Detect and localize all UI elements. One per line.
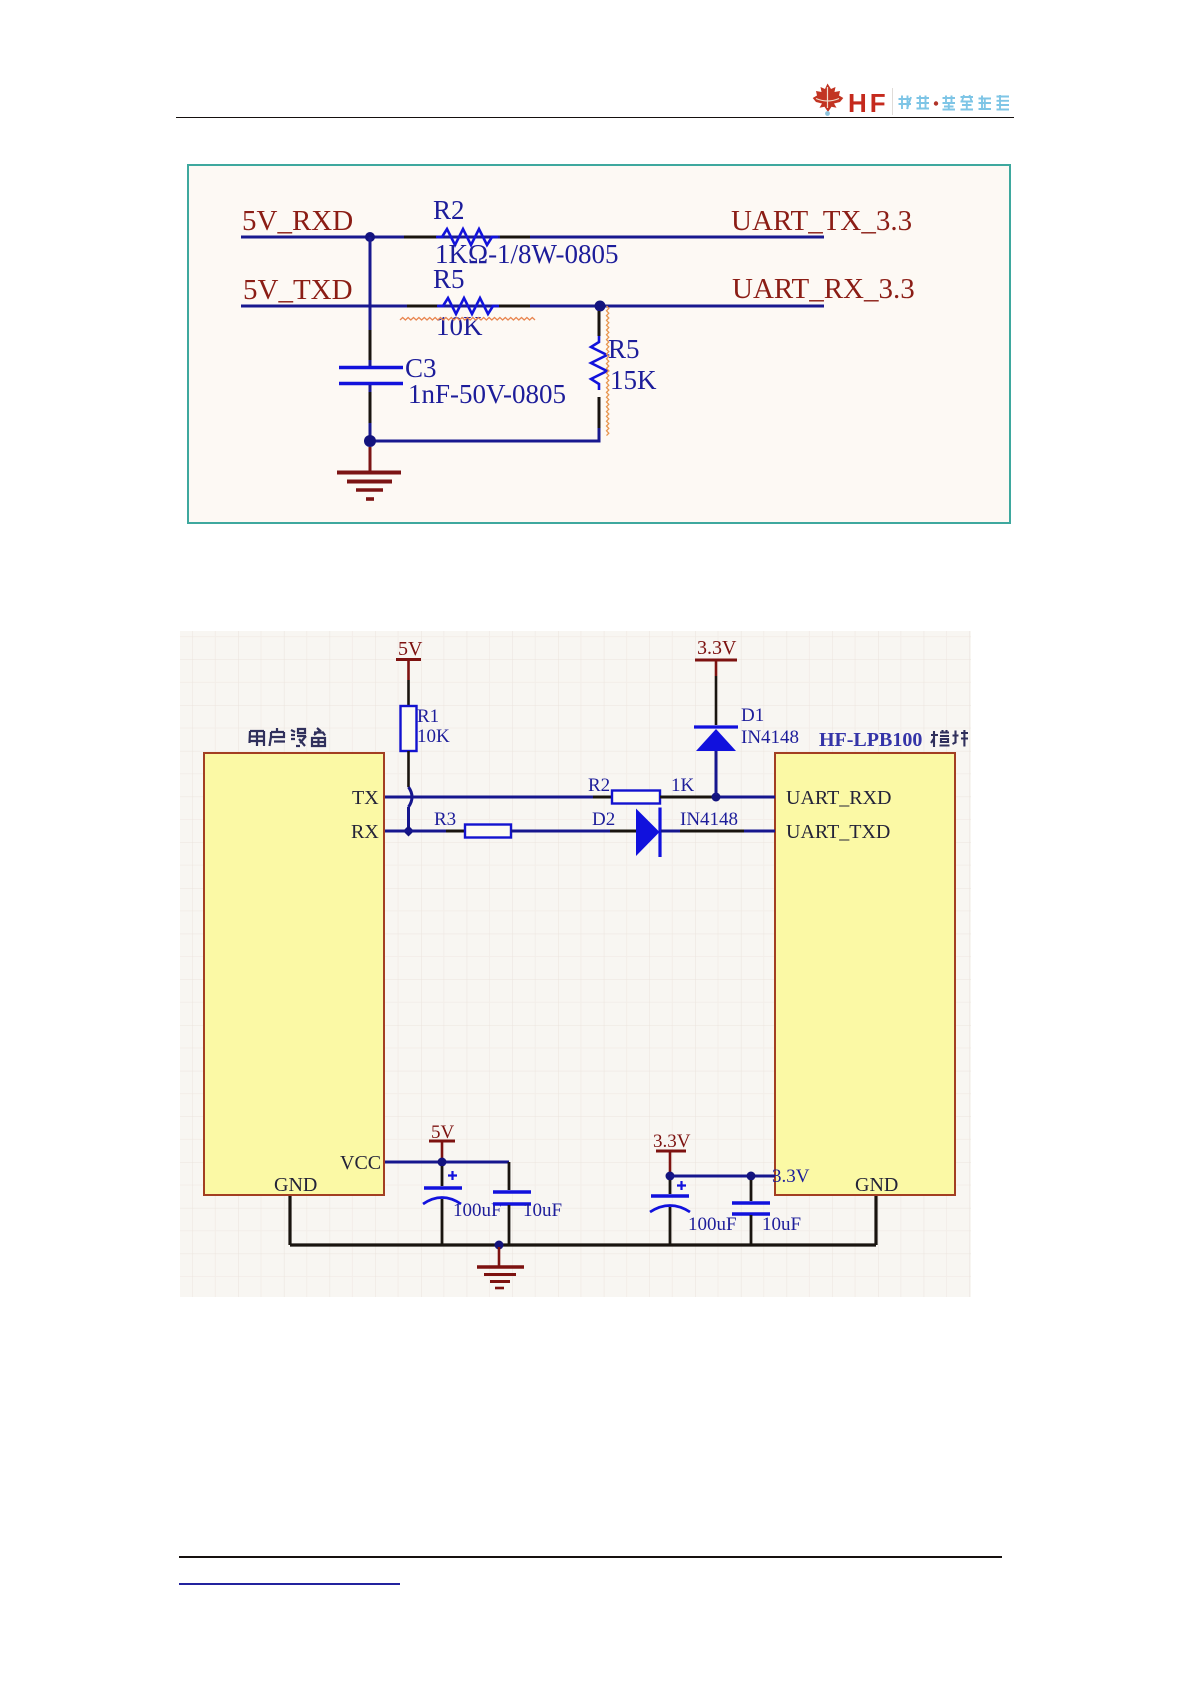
node junction VCC/5V [438,1158,447,1167]
svg-text:5V_TXD: 5V_TXD [243,274,353,306]
wire 5V_TXD net (row 2) [241,305,824,308]
svg-text:UART_RX_3.3: UART_RX_3.3 [732,273,915,305]
wire R2 to D1 junction (dark) [660,796,714,799]
ground symbol [337,447,401,499]
wire GND stem left [288,1196,291,1245]
wire R1 to TX crossing [407,751,410,787]
highlight squiggle along 15K [607,306,609,436]
svg-text:IN4148: IN4148 [680,809,738,830]
resistor R5 zigzag (10K) [437,298,499,314]
svg-text:R5: R5 [608,334,640,364]
svg-text:1nF-50V-0805: 1nF-50V-0805 [408,379,566,409]
wire RX dark segment [446,830,465,833]
capacitor C3 plates [339,368,403,384]
svg-text:UART_TXD: UART_TXD [786,821,890,843]
capacitor 10uF (right) lower stem [750,1215,753,1245]
svg-text:5V: 5V [398,638,423,660]
svg-text:3.3V: 3.3V [697,637,737,659]
wire dark segment before D2 [610,830,637,833]
wire dark segment vertical [369,330,372,360]
highlight squiggle under 10K [400,318,535,321]
node junction row2 [595,301,606,312]
capacitor 100uF top plate [424,1186,462,1189]
node junction 3.3V [666,1172,675,1181]
wire dark segment below C3 [369,392,372,423]
schematic background grid [180,631,971,1297]
capacitor C 100uF (left) stem [441,1166,444,1186]
wire R3 to D2 [511,830,610,833]
svg-text:UART_TX_3.3: UART_TX_3.3 [731,205,912,237]
svg-text:GND: GND [855,1174,898,1196]
wire 3.3V to D1 [715,676,718,725]
svg-text:1K: 1K [671,775,695,796]
node junction bottom [364,435,376,447]
wire dark segment near pin [680,830,744,833]
svg-text:HF-LPB100: HF-LPB100 [819,729,922,751]
wire into pin [744,830,775,833]
svg-text:R2: R2 [588,775,610,796]
wire dark segments row 2 [407,305,530,308]
wire D1 anode to junction [715,751,718,795]
capacitor 100uF (right) plus sign [677,1181,686,1190]
sheet block 用户设备 (user device) [204,753,384,1195]
svg-text:D2: D2 [592,809,615,830]
diode D1 cathode bar [694,725,738,728]
svg-text:R5: R5 [433,264,465,294]
node junction on RX [403,826,414,837]
resistor R1 [401,706,417,751]
svg-text:R3: R3 [434,809,456,830]
resistor R2 zigzag [436,229,498,245]
svg-text:VCC: VCC [340,1152,381,1174]
svg-text:IN4148: IN4148 [741,727,799,748]
svg-text:TX: TX [352,787,379,809]
resistor R5 15K vertical: top dark lead [598,311,601,336]
resistor R3 [465,825,511,838]
node junction on row1 [365,232,375,242]
schematic frame [188,165,1010,523]
resistor R5 15K zigzag [591,336,607,390]
footer link line [179,1583,400,1585]
capacitor 10uF (left) plates [493,1192,531,1204]
logo maple leaf [806,80,852,120]
wire hop over TX [409,787,413,807]
svg-text:RX: RX [351,821,379,843]
svg-text:3.3V: 3.3V [772,1166,810,1187]
capacitor 10uF lower stem [508,1205,511,1245]
footer rule [179,1556,1002,1558]
svg-text:D1: D1 [741,705,764,726]
capacitor 100uF curved plate [423,1198,461,1205]
header rule [176,117,1014,119]
wire TX net [385,796,593,799]
svg-text:15K: 15K [610,365,657,395]
label 模块 [931,730,968,747]
svg-text:10uF: 10uF [523,1200,562,1221]
wire vertical from row1 to C3 [369,237,372,366]
wire D2 to UART_TXD pin [661,830,680,833]
svg-text:100uF: 100uF [688,1214,737,1235]
node junction 10uF branch [747,1172,756,1181]
svg-text:3.3V: 3.3V [653,1131,691,1152]
logo separator [892,88,893,115]
capacitor 100uF (right) lower stem [669,1207,672,1245]
svg-text:10K: 10K [417,726,450,747]
node junction rail/ground [495,1241,504,1250]
wire RX net from block [385,830,446,833]
wire to UART_RXD pin [714,796,775,799]
logo text HF [848,88,889,119]
capacitor 100uF (right) stem [669,1180,672,1194]
resistor R2 [612,791,660,804]
sheet block HF-LPB100 module [775,753,955,1195]
wire 3.3V rail to module [670,1175,775,1178]
ground symbol [477,1247,524,1288]
diode D2 triangle [636,809,660,857]
wire dark segments row 1 [404,236,530,239]
capacitor 100uF (right) top plate [651,1194,689,1197]
node junction TX/D1 [712,793,721,802]
svg-text:R2: R2 [433,195,465,225]
svg-text:R1: R1 [417,706,439,727]
svg-text:5V_RXD: 5V_RXD [242,205,353,237]
capacitor 10uF (right) stem [750,1180,753,1201]
resistor 15K bottom dark lead [598,397,601,430]
wire VCC net [385,1161,509,1164]
wire corner down to 10uF [508,1162,511,1190]
wire hop to RX junction [407,807,410,829]
capacitor 100uF plus sign [448,1171,457,1180]
wire below C3 [369,385,372,441]
svg-text:10K: 10K [436,311,483,341]
wire bottom return to C3 node [372,428,599,441]
label 用户设备 [250,728,326,746]
wire GND stem right [874,1196,877,1245]
wire 5V_RXD net (row 1) [241,236,824,239]
capacitor 100uF (right) curved plate [650,1206,690,1213]
wire ground rail [290,1243,876,1246]
capacitor 100uF lower stem [441,1199,444,1245]
svg-text:UART_RXD: UART_RXD [786,787,891,809]
svg-text:GND: GND [274,1174,317,1196]
diode D2 cathode bar [658,808,661,858]
logo slogan 物联·改变生活 (drawn strokes) [897,94,1017,112]
capacitor 10uF (right) plates [732,1203,770,1214]
wire 5V to R1 [407,680,410,706]
svg-text:10uF: 10uF [762,1214,801,1235]
wire TX dark segment [593,796,612,799]
diode D1 triangle [696,729,736,751]
